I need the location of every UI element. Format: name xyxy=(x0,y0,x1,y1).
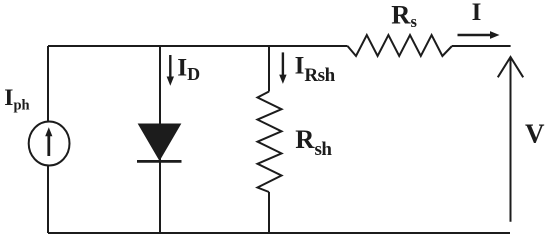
resistor Rs xyxy=(348,35,453,56)
svg-text:Iph: Iph xyxy=(4,85,29,114)
wire top right segment xyxy=(452,45,511,47)
arrow I_Rsh current xyxy=(279,52,286,84)
svg-text:IRsh: IRsh xyxy=(295,53,336,86)
wire left vertical xyxy=(47,46,49,233)
arrow I_D current xyxy=(167,55,174,86)
svg-text:Rsh: Rsh xyxy=(295,124,332,160)
wire Rsh branch top xyxy=(268,46,270,92)
arrow I output current xyxy=(458,31,500,39)
wire Rsh branch bottom xyxy=(268,192,270,233)
wire top left segment xyxy=(48,45,348,47)
current source Iph xyxy=(29,122,70,166)
resistor Rsh xyxy=(258,92,282,193)
svg-text:V: V xyxy=(525,119,545,149)
svg-text:I: I xyxy=(472,0,482,26)
svg-text:Rs: Rs xyxy=(391,0,417,31)
wire diode branch xyxy=(159,46,161,233)
wire bottom xyxy=(48,232,510,234)
svg-text:ID: ID xyxy=(177,53,200,84)
diode D1 xyxy=(137,124,182,161)
arrow V voltage xyxy=(498,57,523,222)
